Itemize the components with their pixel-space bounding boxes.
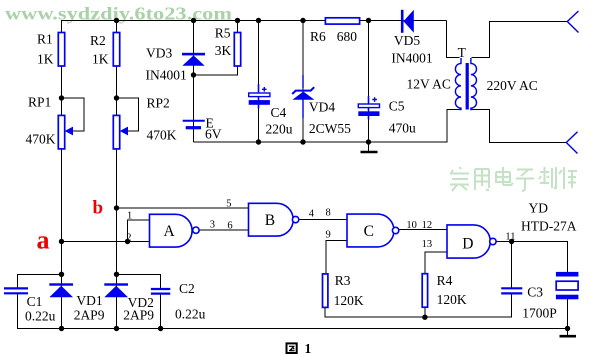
svg-text:b: b xyxy=(93,198,104,219)
wire R3 bottom to R4 bottom to C3 bottom xyxy=(325,294,511,318)
svg-text:R2: R2 xyxy=(90,33,106,48)
svg-text:R1: R1 xyxy=(37,32,53,47)
wire gate C output to gate D pin 12 xyxy=(399,229,447,231)
node b dot xyxy=(114,205,119,210)
node gate D output junction xyxy=(509,239,514,244)
svg-text:RP2: RP2 xyxy=(147,96,170,111)
capacitor C5 electrolytic xyxy=(358,96,416,135)
svg-text:RP1: RP1 xyxy=(28,95,51,110)
zener diode VD4 xyxy=(292,75,351,136)
svg-text:2AP9: 2AP9 xyxy=(123,307,154,322)
wire RP1 wiper loop xyxy=(62,98,85,131)
ground bar under C5 xyxy=(361,151,378,154)
svg-text:C2: C2 xyxy=(179,281,195,296)
wire gate A output to gate B pin 6 xyxy=(199,229,249,231)
wire RP2 wiper loop xyxy=(117,98,139,131)
wire VD4 branch xyxy=(302,21,304,143)
wire VD3 / battery E branch xyxy=(193,21,195,143)
svg-text:120K: 120K xyxy=(437,292,467,307)
node C1 tap dot xyxy=(59,272,64,277)
wire R2/RP2/VD2 vertical branch xyxy=(116,21,118,330)
svg-text:1K: 1K xyxy=(37,52,54,67)
wire 220V AC bottom lead to plug xyxy=(472,110,567,143)
diode VD1 xyxy=(49,283,104,322)
svg-text:0.22u: 0.22u xyxy=(25,309,56,324)
svg-text:13: 13 xyxy=(422,239,433,250)
svg-text:VD4: VD4 xyxy=(309,99,335,114)
wire gate A pin1 stub xyxy=(128,220,150,242)
potentiometer RP1 xyxy=(26,95,74,149)
svg-text:1K: 1K xyxy=(92,52,109,67)
capacitor C2 xyxy=(151,281,206,322)
wire C5 branch xyxy=(368,21,370,143)
resistor R6 xyxy=(310,18,360,44)
svg-text:YD: YD xyxy=(529,200,549,215)
node VD3-R5 junction xyxy=(191,72,196,77)
wire R4 bottom stub xyxy=(424,307,426,317)
svg-text:12: 12 xyxy=(422,220,433,231)
svg-text:C1: C1 xyxy=(27,294,43,309)
svg-text:470u: 470u xyxy=(389,120,416,135)
svg-text:5: 5 xyxy=(226,199,231,210)
wire R5 top stub xyxy=(237,21,239,34)
svg-text:2AP9: 2AP9 xyxy=(74,308,105,323)
svg-text:470K: 470K xyxy=(147,128,177,143)
ground bar bottom right under buzzer xyxy=(560,335,577,338)
wire R1/RP1/VD1 vertical branch xyxy=(61,21,63,330)
svg-text:11: 11 xyxy=(505,232,515,243)
wire node a to gate A inputs xyxy=(62,241,150,243)
svg-text:a: a xyxy=(37,226,50,255)
plug arrow top xyxy=(567,11,578,33)
wire VD3 cathode to R5 bottom xyxy=(194,66,238,75)
wire 220V AC top lead to plug xyxy=(472,22,568,58)
resistor R5 xyxy=(215,26,241,67)
svg-text:120K: 120K xyxy=(334,293,364,308)
capacitor C1 xyxy=(4,288,56,323)
svg-text:8: 8 xyxy=(326,208,331,219)
wire buzzer ground stub xyxy=(567,329,569,337)
wire gate D pin 13 to R4 xyxy=(425,252,447,274)
nand gate B xyxy=(249,203,299,236)
capacitor C3 xyxy=(501,284,557,320)
nand gate A xyxy=(150,214,200,247)
svg-text:1700P: 1700P xyxy=(522,306,557,321)
svg-text:IN4001: IN4001 xyxy=(146,67,187,82)
svg-text:R6: R6 xyxy=(310,29,326,44)
diode VD3 xyxy=(146,46,206,83)
diode VD5 xyxy=(391,10,432,66)
svg-text:T: T xyxy=(458,45,467,60)
svg-text:VD5: VD5 xyxy=(394,33,420,48)
watermark 实用电子制作 xyxy=(450,167,577,191)
resistor R1 xyxy=(58,33,64,67)
node gate A input junction xyxy=(125,239,130,244)
svg-text:C3: C3 xyxy=(527,284,543,299)
svg-text:680: 680 xyxy=(337,29,358,44)
svg-text:D: D xyxy=(462,235,473,252)
svg-text:R3: R3 xyxy=(335,273,351,288)
svg-text:220V AC: 220V AC xyxy=(487,78,538,93)
svg-text:VD3: VD3 xyxy=(146,46,172,61)
plug arrow bottom xyxy=(566,132,577,154)
svg-text:1: 1 xyxy=(305,341,312,356)
wire gate D output to buzzer xyxy=(496,242,567,272)
wire gate C pin 9 to R3 xyxy=(326,241,347,274)
wire 12V AC top lead xyxy=(447,21,460,58)
svg-text:12V AC: 12V AC xyxy=(407,76,451,91)
wire C5 ground stub xyxy=(368,142,370,152)
node junction dots top rail xyxy=(114,18,119,23)
svg-text:220u: 220u xyxy=(266,122,293,137)
node a dot xyxy=(59,239,64,244)
svg-text:C4: C4 xyxy=(271,105,287,120)
svg-text:4: 4 xyxy=(309,209,315,220)
svg-text:B: B xyxy=(265,212,275,229)
buzzer YD HTD-27A xyxy=(521,200,578,299)
node R4-C3 net junction xyxy=(422,315,427,320)
svg-text:3K: 3K xyxy=(215,43,232,58)
svg-text:2CW55: 2CW55 xyxy=(309,121,351,136)
wire C4 branch xyxy=(258,21,260,143)
wire top supply rail xyxy=(61,20,447,22)
wire node b to gate B input 5 xyxy=(117,207,249,209)
svg-text:3: 3 xyxy=(210,220,215,231)
nand gate D xyxy=(447,225,496,258)
svg-text:R4: R4 xyxy=(437,273,453,288)
wire C3 top branch xyxy=(511,242,513,289)
resistor R3 xyxy=(323,273,364,308)
svg-text:0.22u: 0.22u xyxy=(175,306,206,321)
node dots mid ground bus xyxy=(256,139,261,144)
svg-text:IN4001: IN4001 xyxy=(391,51,432,66)
svg-text:C5: C5 xyxy=(389,99,405,114)
node C2 tap dot xyxy=(114,272,119,277)
svg-text:R5: R5 xyxy=(215,26,231,41)
svg-text:6: 6 xyxy=(227,221,232,232)
node bottom bus dots xyxy=(59,326,64,331)
svg-text:A: A xyxy=(164,223,176,240)
battery E 6V xyxy=(183,116,222,142)
svg-text:6V: 6V xyxy=(205,127,222,142)
nand gate C xyxy=(347,214,399,247)
capacitor C4 electrolytic xyxy=(249,84,293,137)
svg-text:470K: 470K xyxy=(26,132,56,147)
svg-text:VD1: VD1 xyxy=(76,293,102,308)
transformer T xyxy=(455,45,476,110)
svg-text:10: 10 xyxy=(406,220,417,231)
svg-text:HTD-27A: HTD-27A xyxy=(521,219,577,234)
wire C1 left branch xyxy=(18,274,62,329)
svg-text:2: 2 xyxy=(126,233,131,244)
node RP1 top dot xyxy=(59,95,64,100)
svg-text:C: C xyxy=(364,223,374,240)
node RP2 top dot xyxy=(114,95,119,100)
resistor R4 xyxy=(422,273,467,307)
wire C2 right branch xyxy=(117,274,161,329)
potentiometer RP2 xyxy=(113,96,176,149)
caption 图 1 xyxy=(287,341,312,356)
svg-text:1: 1 xyxy=(127,211,132,222)
diode VD2 xyxy=(104,283,154,322)
svg-text:9: 9 xyxy=(326,229,331,240)
wire bottom ground bus xyxy=(18,299,568,329)
wire ground bus under battery/C4/VD4/C5 xyxy=(194,110,460,143)
resistor R2 xyxy=(113,33,119,67)
wire gate B output to gate C pin 8 xyxy=(299,219,347,221)
